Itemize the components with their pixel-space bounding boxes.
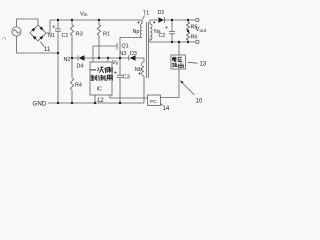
IC Vb pin wire — [107, 58, 109, 62]
svg-text:D4: D4 — [77, 64, 84, 70]
kanji 制 — [90, 75, 97, 81]
leader for 11 — [41, 42, 45, 47]
wire AC bottom to C1 bottom node — [17, 36, 59, 53]
svg-text:10: 10 — [196, 99, 203, 105]
wire secondary bottom to terminal — [188, 41, 196, 43]
leader for 13 — [188, 61, 198, 64]
kanji 電 — [172, 57, 176, 61]
transistor Q1 — [117, 38, 142, 59]
svg-text:C1: C1 — [62, 33, 69, 39]
svg-text:D2: D2 — [158, 10, 165, 16]
diode D2 — [158, 17, 164, 23]
wire bridge DC+ riser to Vin rail — [46, 20, 50, 33]
kanji 検 — [172, 63, 177, 68]
kanji 用 — [106, 75, 112, 81]
kanji 圧 — [178, 57, 183, 61]
AC source V1 — [12, 27, 21, 36]
resistor R1 — [97, 20, 100, 58]
kanji 側 — [105, 67, 113, 73]
wire AC top to bridge — [17, 19, 39, 27]
polarity dot Nb — [139, 73, 141, 75]
wire Vin top rail — [50, 19, 142, 21]
svg-text:C2: C2 — [159, 33, 166, 39]
kanji 御 — [98, 75, 105, 81]
junction dots — [57, 19, 189, 104]
svg-text:D3: D3 — [130, 51, 137, 57]
terminal Vout+ — [196, 18, 199, 21]
IC ground pin 12 — [94, 95, 96, 103]
svg-text:N1: N1 — [48, 33, 55, 39]
artifact mark — [2, 38, 5, 41]
leader T1 — [143, 16, 145, 20]
svg-text:N2: N2 — [64, 57, 71, 63]
primary control IC box 12 — [90, 62, 112, 95]
wire N2 to D4 to Vb to N3 — [72, 58, 144, 62]
arrow 10 — [180, 81, 195, 96]
svg-text:N3: N3 — [120, 51, 127, 57]
primary winding Np — [140, 20, 142, 38]
capacitor C1 — [53, 20, 61, 103]
bridge rectifier N1 (diamond) — [30, 25, 46, 41]
svg-text:C3: C3 — [123, 75, 130, 81]
svg-text:Np: Np — [133, 29, 140, 35]
svg-text:R1: R1 — [103, 32, 110, 38]
svg-text:R4: R4 — [75, 83, 82, 89]
svg-text:R6: R6 — [191, 35, 198, 41]
svg-text:Q1: Q1 — [122, 43, 129, 49]
kanji 次 — [97, 67, 104, 72]
capacitor C3 — [114, 58, 123, 103]
diode D4 — [78, 55, 85, 61]
svg-text:Vout: Vout — [196, 27, 207, 34]
photocoupler PC box 14 — [148, 95, 161, 106]
kanji 一 (ichi) — [90, 69, 96, 71]
svg-text:Vin: Vin — [80, 12, 88, 18]
polarity dot Np — [138, 22, 140, 24]
svg-text:11: 11 — [44, 47, 51, 53]
secondary winding Ns — [150, 20, 188, 42]
diode D3 — [129, 55, 136, 61]
transformer T1 core — [147, 22, 149, 78]
svg-text:13: 13 — [200, 62, 207, 68]
resistor R3 — [70, 20, 73, 78]
svg-text:Vb: Vb — [112, 60, 119, 66]
IC feedback pin to photocoupler — [110, 95, 148, 98]
svg-text:T1: T1 — [143, 11, 149, 17]
svg-text:14: 14 — [163, 106, 170, 112]
resistor R5 — [186, 20, 189, 30]
ground rail — [48, 102, 144, 104]
svg-text:Nb: Nb — [135, 67, 142, 73]
polarity dot Ns — [153, 22, 155, 24]
kanji 出 — [178, 63, 183, 68]
auxiliary winding Nb — [142, 62, 144, 103]
voltage detector box 13 — [161, 42, 186, 98]
leader for 14 — [161, 104, 163, 106]
svg-text:GND: GND — [33, 101, 47, 108]
svg-text:IC: IC — [97, 87, 102, 93]
terminal Vout- — [196, 40, 199, 43]
wire D2 to Vout terminal — [165, 19, 196, 21]
svg-text:PC: PC — [150, 99, 157, 104]
IC gate pin wire — [93, 46, 117, 62]
svg-text:R3: R3 — [76, 32, 83, 38]
resistor R6 — [186, 30, 189, 42]
capacitor C2 — [165, 20, 175, 42]
resistor R4 — [70, 78, 73, 103]
